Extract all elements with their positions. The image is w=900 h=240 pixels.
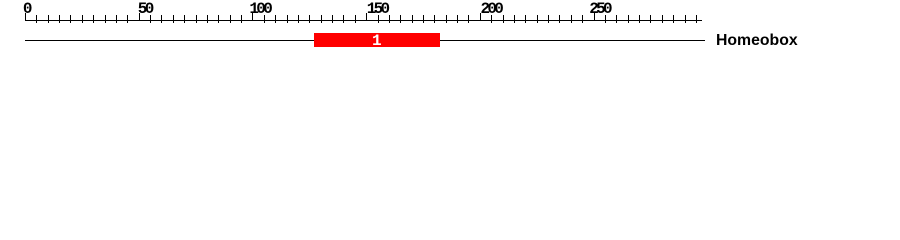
minor tick at x=355 [355,15,356,23]
minor tick at x=503 [503,15,504,23]
minor tick at x=36 [36,15,37,23]
minor tick at x=264 [264,15,265,23]
minor tick at x=389 [389,15,390,23]
minor tick at x=616 [616,15,617,23]
domain name Homeobox [716,33,798,49]
minor tick at x=650 [650,15,651,23]
minor tick at x=48 [48,15,49,23]
minor tick at x=696 [696,15,697,23]
minor tick at x=150 [150,15,151,23]
minor tick at x=378 [378,15,379,23]
minor tick at x=343 [343,15,344,23]
minor tick at x=184 [184,15,185,23]
ruler label 200 [481,1,502,17]
protein sequence line [25,40,705,41]
minor tick at x=525 [525,15,526,23]
minor tick at x=218 [218,15,219,23]
major tick at x=252 [252,13,253,21]
minor tick at x=116 [116,15,117,23]
minor tick at x=423 [423,15,424,23]
minor tick at x=537 [537,15,538,23]
ruler label 0 [23,1,30,17]
major tick at x=594 [594,13,595,21]
minor tick at x=468 [468,15,469,23]
ruler label 100 [249,1,270,17]
ruler line [25,20,702,21]
minor tick at x=321 [321,15,322,23]
minor tick at x=59 [59,15,60,23]
minor tick at x=298 [298,15,299,23]
minor tick at x=446 [446,15,447,23]
minor tick at x=639 [639,15,640,23]
minor tick at x=491 [491,15,492,23]
minor tick at x=673 [673,15,674,23]
minor tick at x=275 [275,15,276,23]
minor tick at x=93 [93,15,94,23]
minor tick at x=161 [161,15,162,23]
ruler label 50 [138,1,152,17]
minor tick at x=287 [287,15,288,23]
ruler label 250 [589,1,610,17]
minor tick at x=241 [241,15,242,23]
minor tick at x=400 [400,15,401,23]
major tick at x=366 [366,13,367,21]
minor tick at x=127 [127,15,128,23]
major tick at x=139 [139,13,140,21]
minor tick at x=173 [173,15,174,23]
minor tick at x=105 [105,15,106,23]
domain number label 1 [372,33,382,49]
minor tick at x=628 [628,15,629,23]
minor tick at x=82 [82,15,83,23]
minor tick at x=605 [605,15,606,23]
minor tick at x=70 [70,15,71,23]
minor tick at x=196 [196,15,197,23]
major tick at x=25 [25,13,26,21]
minor tick at x=412 [412,15,413,23]
ruler label 150 [367,1,388,17]
minor tick at x=559 [559,15,560,23]
minor tick at x=548 [548,15,549,23]
minor tick at x=662 [662,15,663,23]
minor tick at x=457 [457,15,458,23]
minor tick at x=207 [207,15,208,23]
minor tick at x=571 [571,15,572,23]
minor tick at x=230 [230,15,231,23]
minor tick at x=309 [309,15,310,23]
minor tick at x=685 [685,15,686,23]
minor tick at x=434 [434,15,435,23]
Homeobox domain box (red) [314,33,440,47]
major tick at x=480 [480,13,481,21]
minor tick at x=514 [514,15,515,23]
minor tick at x=332 [332,15,333,23]
minor tick at x=582 [582,15,583,23]
